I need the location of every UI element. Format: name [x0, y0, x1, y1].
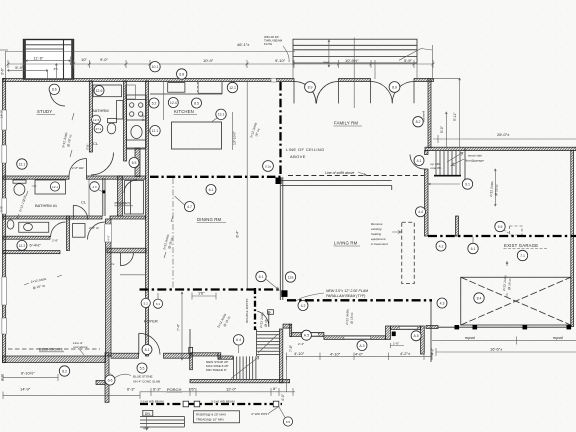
porch beam post 2: [194, 401, 200, 407]
ref circle 27.1: [94, 124, 103, 133]
porch black post: [392, 332, 396, 337]
wall hall/pantry vertical: [118, 176, 123, 216]
svg-text:10′-9½″: 10′-9½″: [345, 58, 359, 63]
garage door post 4: [567, 325, 572, 329]
black post at divider bottom: [281, 290, 287, 297]
upper stair diagonal: [258, 334, 278, 353]
svg-text:9′-0″: 9′-0″: [100, 57, 109, 62]
stair dim line to 9.1: [429, 183, 461, 185]
parallam beam dash: [140, 288, 282, 290]
svg-text:in basement: in basement: [371, 242, 388, 246]
parallam beam dash living: [287, 299, 432, 301]
svg-text:8.4: 8.4: [477, 296, 482, 300]
porch beam post 3: [273, 401, 279, 407]
svg-text:7.1: 7.1: [520, 254, 525, 258]
svg-text:9.1: 9.1: [465, 182, 470, 186]
svg-text:@ 16 oc: @ 16 oc: [494, 184, 499, 196]
svg-text:12.2: 12.2: [18, 244, 25, 248]
range rect: [127, 100, 147, 121]
svg-text:6.1: 6.1: [156, 302, 161, 306]
svg-text:5′-9″: 5′-9″: [404, 58, 413, 63]
ref circle 12.1 kitchen: [227, 82, 237, 92]
garage 16-6 dim line: [436, 348, 576, 356]
garage note dashed box: [510, 226, 523, 235]
svg-text:4′-2″±: 4′-2″±: [400, 351, 411, 356]
ref circle 12.3: [92, 115, 101, 124]
front door arc foyer: [139, 333, 160, 354]
chimney right thick edge: [71, 40, 73, 80]
svg-text:5′-9″: 5′-9″: [15, 65, 24, 70]
corridor west opening: [105, 224, 112, 242]
svg-text:equal: equal: [465, 335, 475, 340]
dining dashdot joist line: [172, 178, 174, 290]
svg-text:4′-10″: 4′-10″: [294, 351, 305, 356]
svg-text:RISERS@ 8.25″ MAX: RISERS@ 8.25″ MAX: [196, 413, 226, 417]
svg-text:1′6″: 1′6″: [189, 387, 196, 392]
porch beam dash: [140, 403, 282, 405]
beam dash kitchen vertical: [279, 82, 281, 176]
ref circle 12.6: [94, 86, 104, 96]
study hall door arc: [69, 159, 87, 177]
svg-text:equal: equal: [553, 335, 563, 340]
ref circle 5.5 porch: [137, 363, 147, 373]
counter divider 2: [127, 148, 147, 150]
wall bedroom top: [3, 216, 102, 219]
ref circle 8.9 left: [305, 82, 316, 93]
beam dash kitchen horizontal: [150, 176, 281, 178]
ref circle 12.5 tub: [50, 182, 59, 191]
family door right pair leaf2: [392, 82, 414, 104]
ref circle 7.1: [517, 250, 527, 260]
mudroom stair arrow: [447, 153, 463, 163]
ref circle 4.3: [437, 298, 447, 308]
wall garage top: [425, 147, 576, 150]
wall mudroom left vertical lower: [425, 169, 429, 236]
soffit line lower: [281, 186, 392, 191]
svg-text:4′-10″: 4′-10″: [330, 352, 341, 357]
ref circle A.5 left: [301, 330, 311, 340]
svg-text:4.3: 4.3: [440, 301, 445, 305]
burner 1: [130, 103, 134, 107]
svg-text:8′-4″: 8′-4″: [236, 230, 240, 238]
svg-text:existing: existing: [371, 227, 382, 231]
svg-text:6.1: 6.1: [209, 188, 214, 192]
svg-text:3′-6″: 3′-6″: [1, 67, 5, 75]
mudroom stair base line: [434, 175, 461, 177]
ref circle 12.4: [168, 98, 178, 108]
svg-text:12.4: 12.4: [170, 101, 177, 105]
hall post black: [102, 190, 105, 193]
bedroom dim line 14-9: [3, 392, 140, 400]
svg-text:4.2: 4.2: [439, 244, 444, 248]
burner 4: [139, 112, 143, 116]
ref circle 4.2 garage: [436, 241, 446, 251]
svg-text:roof above: roof above: [73, 345, 88, 349]
garage X box: [461, 277, 571, 325]
svg-text:BEDROOM 1: BEDROOM 1: [39, 347, 64, 352]
ref circle 8.1 foyer: [142, 345, 152, 355]
svg-text:3½: 3½: [54, 67, 59, 71]
svg-text:STUDY: STUDY: [37, 109, 52, 114]
svg-text:DN: DN: [145, 412, 151, 416]
wall top right of family doors: [414, 79, 434, 82]
bath1 toilet tank: [108, 119, 117, 123]
ref circle 12a living: [285, 272, 295, 282]
ref circle 5.2 kitchen: [149, 98, 159, 108]
dim line 5-9 second row: [8, 69, 48, 79]
ref circle 9.2a: [263, 161, 274, 172]
wall corridor top segment: [110, 216, 146, 219]
svg-text:46′-1″±: 46′-1″±: [237, 42, 250, 47]
garage top dim line: [433, 135, 576, 143]
header left dim vertical: [293, 63, 417, 79]
porch right vertical line: [430, 301, 432, 363]
svg-text:4′-0″: 4′-0″: [355, 352, 364, 357]
window porch segC: [344, 336, 371, 339]
bath1 vanity: [117, 101, 124, 120]
pantry door arc: [124, 180, 137, 193]
wall bath2 bottom: [3, 236, 50, 239]
svg-text:3-2×8 WD BEAM: 3-2×8 WD BEAM: [140, 400, 164, 404]
soffit dashed line living: [288, 175, 424, 177]
wall study bottom left segment: [3, 176, 69, 179]
svg-text:9.2a: 9.2a: [265, 164, 271, 168]
ref circle 6.4: [233, 335, 243, 345]
wall linen closet bottom: [3, 251, 60, 254]
ref circle 8.4: [474, 293, 484, 303]
upper cab box: [126, 85, 136, 99]
wall porch north segA: [283, 324, 290, 328]
svg-text:12.1: 12.1: [229, 86, 236, 90]
svg-text:6′-3″: 6′-3″: [153, 387, 162, 392]
stair landing door arc: [257, 311, 269, 327]
living-mudroom door arc: [410, 155, 425, 170]
svg-text:6.6: 6.6: [108, 378, 113, 382]
svg-text:PANTRY: PANTRY: [115, 201, 131, 206]
wall porch north segD: [391, 326, 421, 330]
svg-text:4′-0″: 4′-0″: [281, 393, 285, 401]
wall porch north stepup: [386, 326, 391, 339]
wall study/bath divider vertical: [89, 81, 92, 152]
wall garage left vertical: [456, 216, 459, 236]
top main dim line: [8, 63, 433, 65]
svg-text:4.1: 4.1: [417, 159, 422, 163]
garage door post 1: [455, 325, 460, 329]
ref circle 11.1: [150, 126, 160, 136]
chimney left thick edge: [24, 40, 26, 80]
svg-text:6′-3″: 6′-3″: [127, 387, 136, 392]
svg-text:7′-8″: 7′-8″: [289, 344, 293, 352]
svg-text:@ 16: @ 16: [264, 319, 269, 327]
wall stair right vertical: [279, 329, 282, 383]
wall bath/kitchen divider vertical: [124, 81, 127, 161]
joist note mudroom rotated: [494, 169, 496, 206]
svg-text:10.1: 10.1: [152, 65, 159, 69]
mini dim 1-6 porch right: [390, 343, 404, 348]
svg-text:6′-10½″: 6′-10½″: [21, 371, 35, 376]
svg-text:EXIST GARAGE: EXIST GARAGE: [504, 243, 538, 248]
hall closet east double line: [103, 178, 105, 216]
closet right edge line: [88, 179, 90, 216]
lower stair treads vertical: [234, 356, 256, 379]
svg-text:4″ WD POST: 4″ WD POST: [251, 412, 269, 416]
wall porch left vertical: [105, 353, 109, 403]
dining/living divider wall line 1: [279, 177, 281, 300]
svg-text:16′-6″±: 16′-6″±: [490, 347, 503, 352]
svg-text:PORCH: PORCH: [167, 387, 182, 392]
wall bedroom bottom: [3, 356, 106, 363]
svg-text:heating: heating: [371, 232, 381, 236]
svg-text:6′-4½″: 6′-4½″: [30, 243, 42, 248]
svg-text:8.9: 8.9: [308, 85, 313, 89]
svg-text:9′-10″: 9′-10″: [275, 58, 286, 63]
svg-text:FLHG: FLHG: [264, 42, 273, 46]
svg-text:BLUE STONE: BLUE STONE: [133, 375, 153, 379]
svg-text:4.2: 4.2: [301, 304, 306, 308]
window porch segB: [301, 333, 319, 336]
bath2 toilet: [7, 220, 14, 229]
bedroom dim line 6-10: [3, 374, 58, 381]
ref circle 4.2 beam: [298, 301, 308, 311]
svg-text:27.1: 27.1: [95, 127, 101, 131]
kitchen sink: [131, 126, 142, 139]
svg-text:6.8: 6.8: [179, 72, 184, 76]
wall porch north stepdown: [290, 324, 292, 337]
kitchen top counter band: [150, 82, 222, 94]
ref circle 5.2 foyer: [141, 298, 150, 307]
wall bath2 inner vertical: [67, 216, 70, 251]
svg-text:A.3: A.3: [359, 344, 364, 348]
top long extension line: [5, 51, 295, 53]
svg-text:2′-8″ dr: 2′-8″ dr: [89, 226, 99, 230]
bath2 vanity: [19, 222, 49, 232]
svg-text:4.4: 4.4: [418, 210, 423, 214]
svg-text:12.3: 12.3: [93, 118, 99, 122]
wall stairroom top upper: [190, 353, 218, 356]
wall top between family doors: [339, 79, 371, 82]
wall corridor closet top: [107, 248, 146, 253]
pantry shelves: [125, 181, 144, 215]
porch SW pier: [96, 381, 105, 385]
bath2 toilet tank: [13, 180, 26, 183]
svg-text:12a: 12a: [288, 275, 294, 279]
wall study-area/kitchen-dining main vertical: [146, 81, 149, 356]
window left wall study: [2, 110, 6, 130]
front door leaf: [138, 333, 140, 354]
ref circle 10.1: [150, 61, 160, 71]
right dim vertical 2: [429, 78, 461, 147]
svg-text:KITCHEN: KITCHEN: [174, 109, 194, 114]
svg-text:Remove: Remove: [371, 222, 383, 226]
ref circle 6.1 dining upper: [206, 185, 216, 195]
svg-text:max 8¼: max 8¼: [431, 166, 442, 170]
header tick verticals: [328, 40, 375, 79]
svg-text:2′-8″ DR: 2′-8″ DR: [71, 166, 84, 170]
soffit line upper: [281, 180, 392, 182]
right dim vertical 1: [445, 112, 447, 147]
svg-text:2′-6″: 2′-6″: [52, 239, 59, 243]
top dim ticks: [7, 60, 435, 68]
ref circle 8.2 mud: [413, 117, 423, 127]
svg-text:6″: 6″: [273, 386, 277, 391]
svg-text:2′-4″: 2′-4″: [298, 342, 305, 346]
svg-text:TREADS@ 10″ MIN: TREADS@ 10″ MIN: [196, 418, 224, 422]
header center dim vertical: [353, 38, 355, 109]
wall porch north segB: [292, 332, 324, 336]
wall bedroom right vertical: [106, 219, 112, 356]
wall mudroom left vertical upper: [425, 151, 429, 155]
window left wall study 2: [2, 145, 6, 163]
double joists dash vertical: [254, 288, 256, 330]
svg-text:BATHRM #1: BATHRM #1: [35, 203, 58, 208]
wall foyer front right of door: [164, 353, 191, 358]
svg-text:A.5: A.5: [304, 334, 309, 338]
svg-text:12.1: 12.1: [52, 185, 58, 189]
corridor door arc: [88, 222, 106, 240]
wall stairroom west vertical: [190, 354, 193, 370]
svg-text:ABOVE: ABOVE: [290, 154, 306, 159]
svg-text:6.1: 6.1: [259, 275, 264, 279]
svg-text:12.1: 12.1: [18, 162, 25, 166]
svg-text:26′-0″±: 26′-0″±: [497, 132, 510, 137]
bath1 door arc: [91, 153, 114, 176]
garage X diagonal 2: [461, 277, 571, 325]
svg-text:MIN TREAD 9″: MIN TREAD 9″: [206, 368, 228, 372]
svg-text:4.3: 4.3: [92, 185, 97, 189]
garage door post 2: [473, 325, 478, 329]
ref circle 8.6: [49, 84, 59, 94]
svg-text:14′-9″: 14′-9″: [20, 387, 31, 392]
svg-text:LIVING RM: LIVING RM: [334, 241, 358, 246]
kitchen dishwasher box: [198, 82, 222, 94]
svg-text:11.1: 11.1: [152, 129, 159, 133]
ref circle 5.5 hall: [129, 158, 139, 168]
svg-text:m+d: m+d: [323, 60, 329, 64]
chimney shelf line 1: [26, 44, 71, 46]
bath2 vanity top: [35, 180, 66, 194]
svg-text:5′-0″: 5′-0″: [440, 125, 444, 133]
svg-text:8.9: 8.9: [392, 85, 397, 89]
svg-text:10″: 10″: [81, 57, 87, 62]
garage door post 3: [523, 325, 528, 329]
kitchen rotated dim line: [232, 112, 234, 150]
svg-text:4′-0″: 4′-0″: [107, 234, 111, 241]
ref circle A.5 right: [411, 331, 421, 341]
chimney inner dim line 11-6: [26, 57, 70, 66]
chimney small arrow 3.5: [55, 64, 57, 80]
ref circle 4.7: [185, 202, 195, 212]
DN box: [143, 410, 153, 416]
wall porch northeast corner vertical: [421, 326, 425, 354]
burner 3: [130, 112, 134, 116]
wall kitchen-hall stub: [135, 148, 140, 177]
porch right dim line: [286, 353, 432, 361]
counter divider 1: [127, 139, 147, 141]
svg-text:8.6: 8.6: [52, 88, 57, 92]
svg-text:6.5: 6.5: [286, 420, 291, 424]
wall stairroom top step: [218, 353, 221, 359]
svg-text:@ 16 oc: @ 16 oc: [350, 312, 354, 324]
svg-text:5.2: 5.2: [144, 301, 149, 305]
ref circle 8.2 bedroom: [59, 366, 69, 376]
stair right edge line: [464, 148, 466, 181]
ref circle 14.3 hall: [90, 182, 100, 192]
header inner line 1: [293, 44, 417, 46]
ref circle 5.5 garage: [495, 221, 505, 231]
svg-text:5.2: 5.2: [152, 101, 157, 105]
chimney box: [24, 40, 74, 80]
svg-text:3-2×8 WD BEAM: 3-2×8 WD BEAM: [211, 400, 235, 404]
svg-text:4′-0″: 4′-0″: [431, 347, 435, 355]
window left wall bath2: [2, 198, 6, 214]
svg-text:12.6: 12.6: [96, 89, 103, 93]
family room header box: [293, 39, 417, 63]
stair landing label box: [268, 310, 274, 315]
burner 2: [139, 103, 143, 107]
header inner line 3: [293, 55, 417, 57]
header inner line 2: [293, 49, 417, 51]
svg-text:7′-4″: 7′-4″: [177, 323, 181, 331]
svg-text:2′-8″: 2′-8″: [0, 205, 4, 212]
svg-text:13′-10½″: 13′-10½″: [233, 130, 237, 145]
corridor closet door arc: [120, 253, 133, 266]
porch lower steps: [140, 417, 184, 428]
chimney shelf line 2: [26, 48, 64, 50]
wall stairroom bottom: [190, 379, 290, 382]
svg-text:11′-6″: 11′-6″: [34, 55, 44, 60]
svg-text:wood stair: wood stair: [468, 154, 483, 158]
kitchen island: [172, 122, 222, 149]
header diagonal tie: [399, 49, 432, 61]
svg-text:FAMILY RM: FAMILY RM: [334, 121, 358, 126]
svg-text:NEW 3.5″× 12″ 2.0E PLAM: NEW 3.5″× 12″ 2.0E PLAM: [326, 289, 368, 293]
wall garage bottom left of door: [426, 326, 438, 329]
ref circle 8.9 right: [389, 82, 400, 93]
svg-text:12′-0″: 12′-0″: [226, 387, 237, 392]
svg-text:BATHRM: BATHRM: [92, 108, 109, 113]
wall left exterior: [3, 79, 6, 363]
wall porch north segC: [324, 336, 386, 340]
window porch segD: [399, 327, 417, 330]
porch right extension vertical: [286, 356, 288, 392]
svg-text:8.5: 8.5: [194, 101, 199, 105]
svg-text:8.2: 8.2: [62, 369, 67, 373]
bath2 sink: [24, 223, 33, 230]
svg-text:6.1: 6.1: [471, 247, 476, 251]
svg-text:1′6″: 1′6″: [198, 291, 205, 296]
kitchen left counter: [127, 95, 147, 148]
upper stair treads horizontal: [257, 329, 280, 356]
ref circle 12.2: [17, 240, 27, 250]
family door left pair leaf1: [294, 82, 316, 104]
ref circle 6.8: [177, 69, 187, 79]
svg-text:FOYER: FOYER: [144, 319, 158, 324]
svg-text:LINE OF CEILING: LINE OF CEILING: [286, 147, 325, 152]
ref circle 8.5: [192, 98, 202, 108]
svg-text:CL: CL: [81, 200, 87, 205]
kitchen top sink box: [168, 83, 185, 93]
svg-text:10′-9″: 10′-9″: [203, 58, 214, 63]
ref circle 4.4: [416, 207, 426, 217]
wall family room right vertical: [428, 79, 431, 148]
family door left pair leaf2: [317, 82, 339, 104]
wall top exterior left span: [3, 79, 294, 82]
ref circle 13.1: [216, 109, 226, 119]
bedroom closet door arc: [73, 205, 88, 220]
porch steps down arrow: [145, 417, 147, 430]
svg-text:16′-2″: 16′-2″: [0, 109, 4, 118]
bath1 toilet bowl: [107, 123, 116, 134]
